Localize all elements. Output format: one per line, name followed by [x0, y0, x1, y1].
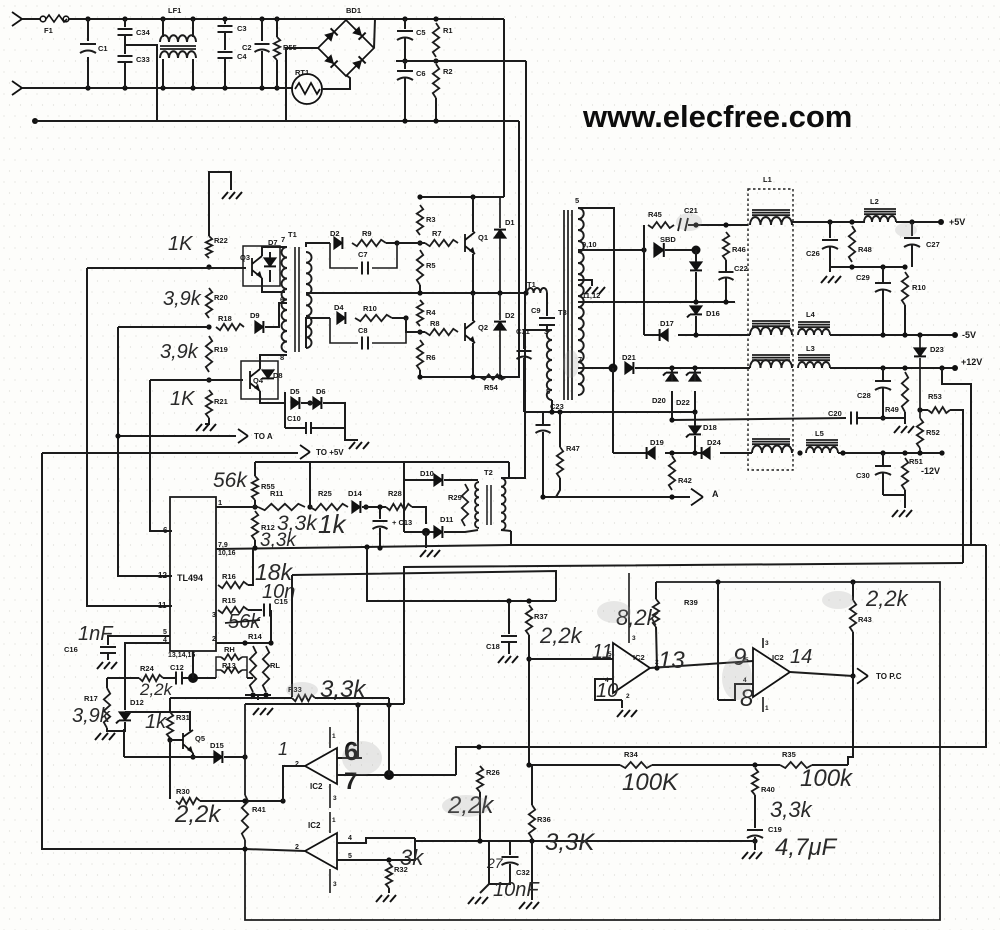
wire C23 stub	[542, 412, 544, 425]
transistor Q3 box	[243, 246, 280, 286]
svg-text:R18: R18	[218, 314, 232, 323]
resistor R1	[433, 23, 439, 57]
node D21 big	[609, 364, 618, 373]
wire plus12 row	[635, 367, 750, 369]
junction	[641, 247, 646, 252]
diode D23	[914, 348, 926, 356]
core LF1	[160, 46, 196, 49]
svg-text:R8: R8	[430, 319, 440, 328]
junction	[902, 450, 907, 455]
diode D14	[352, 501, 360, 513]
wire bottom AC rail	[22, 87, 292, 89]
wire sbd to node	[665, 249, 696, 251]
wire IC2d out	[790, 672, 853, 676]
wire C6 stub	[404, 78, 406, 121]
wire R36 bottom	[531, 838, 533, 900]
svg-text:1k: 1k	[145, 711, 167, 733]
wire C27 stub	[911, 222, 913, 236]
wire tap 9 10	[578, 249, 644, 251]
wire R2 stub	[435, 98, 437, 121]
svg-text:+5V: +5V	[949, 217, 965, 227]
wire R33 row left	[170, 697, 292, 699]
svg-text:C8: C8	[358, 326, 368, 335]
wire out b step	[389, 838, 415, 860]
wire IC2c gnd stub	[621, 700, 623, 708]
svg-text:13: 13	[658, 647, 685, 674]
junction	[669, 450, 674, 455]
wire R12 to rail	[254, 540, 256, 548]
core L4	[798, 322, 830, 327]
wire D12 R17 gnd	[107, 722, 125, 731]
wire C4 stub	[224, 58, 226, 88]
junction	[752, 838, 757, 843]
junction	[417, 329, 422, 334]
diode SBD	[654, 243, 664, 257]
wire C19 gnd	[754, 837, 756, 850]
wire DC minus rail	[35, 120, 519, 122]
svg-text:+ C13: + C13	[392, 518, 412, 527]
junction	[222, 16, 227, 21]
svg-text:L1: L1	[763, 175, 772, 184]
ground under RL	[253, 708, 273, 715]
wire Q2 emitter	[472, 343, 474, 377]
svg-text:R31: R31	[176, 713, 190, 722]
svg-text:D11: D11	[440, 515, 453, 524]
inductor L1 winding2	[750, 327, 792, 335]
wire r49 gnd stub	[904, 418, 906, 424]
wire C5 stub	[404, 38, 406, 61]
wire IC2c out	[650, 661, 753, 668]
junction	[476, 744, 481, 749]
svg-text:IC2: IC2	[772, 653, 784, 662]
svg-text:56k: 56k	[213, 469, 248, 492]
svg-text:R25: R25	[318, 489, 332, 498]
junction	[167, 737, 172, 742]
fuse F1	[40, 15, 69, 22]
svg-text:R48: R48	[858, 245, 872, 254]
svg-text:R42: R42	[678, 476, 692, 485]
svg-text:D21: D21	[622, 353, 636, 362]
svg-text:D22: D22	[676, 398, 690, 407]
wire C28 stub	[882, 368, 884, 381]
svg-text:R41: R41	[252, 805, 266, 814]
junction	[355, 702, 360, 707]
wire +5V rail a	[792, 221, 865, 223]
ground R49	[894, 426, 914, 433]
thermistor RT1	[292, 74, 322, 104]
junction	[252, 504, 257, 509]
svg-text:C29: C29	[856, 273, 870, 282]
core T3 b	[567, 210, 569, 400]
wire T3 pin5 top loop	[578, 208, 614, 368]
junction	[715, 579, 720, 584]
wire IC2c plus loop	[595, 679, 622, 700]
junction	[242, 846, 247, 851]
junction	[386, 702, 391, 707]
wire +12V rail	[830, 367, 954, 369]
svg-text:R3: R3	[426, 215, 436, 224]
wire D20 stubs	[671, 368, 673, 381]
junction	[377, 504, 382, 509]
svg-text:R46: R46	[732, 245, 746, 254]
wire RT1 to bridge	[322, 75, 350, 89]
junction	[470, 194, 475, 199]
junction	[190, 16, 195, 21]
resistor R40	[752, 768, 758, 795]
resistor R53	[928, 407, 950, 413]
wire box top inner	[245, 703, 404, 705]
svg-text:3,3k: 3,3k	[260, 530, 297, 551]
junction	[752, 762, 757, 767]
svg-text:F1: F1	[44, 26, 53, 35]
junction	[259, 16, 264, 21]
junction	[526, 656, 531, 661]
junction	[307, 400, 312, 405]
wire D22 stubs	[694, 368, 696, 381]
wire lower snubber right	[392, 317, 406, 319]
wire left net vertical pin6	[150, 380, 172, 531]
svg-text:2,2k: 2,2k	[539, 623, 583, 648]
capacitor C27	[904, 238, 920, 247]
wire IC2b input	[245, 849, 305, 851]
wire C30 stub	[882, 453, 884, 466]
wire R34 row	[529, 764, 620, 766]
svg-text:C16: C16	[64, 645, 78, 654]
wire D12 stub	[124, 678, 126, 710]
svg-text:10n: 10n	[262, 581, 295, 603]
wire R50 stub	[904, 305, 906, 335]
junction	[417, 290, 422, 295]
wire C23 down	[542, 432, 544, 497]
svg-text:IC2: IC2	[308, 821, 321, 830]
bridge diode 4	[352, 56, 365, 69]
wire R24 row	[107, 677, 139, 679]
ground below R21	[196, 424, 216, 431]
capacitor C5	[397, 31, 413, 40]
svg-text:3,9k: 3,9k	[163, 288, 202, 310]
junction	[880, 450, 885, 455]
svg-text:R20: R20	[214, 293, 228, 302]
wire doubler mid drop	[525, 61, 527, 293]
wire C26 gnd stub	[829, 267, 831, 272]
wire D2p down	[499, 330, 501, 377]
junction	[160, 16, 165, 21]
svg-text:C28: C28	[857, 391, 871, 400]
wire fb corner	[291, 575, 293, 697]
diode D17	[660, 329, 668, 341]
wire C22 link	[725, 260, 727, 272]
wire IC2d plus loop	[718, 684, 753, 700]
wire minus5 row	[678, 334, 750, 336]
svg-text:C19: C19	[768, 825, 782, 834]
junction	[363, 504, 368, 509]
svg-text:R14: R14	[248, 632, 263, 641]
junction	[402, 118, 407, 123]
wire Q4 base row	[150, 379, 243, 381]
resistor R29	[462, 484, 468, 526]
wire D23 stub2	[919, 358, 921, 368]
wire pin1 to R11	[216, 506, 258, 508]
svg-text:T3: T3	[558, 308, 567, 317]
wire bridge plus up to top rail	[374, 19, 375, 48]
wire R8 row	[406, 318, 425, 332]
strike through 56k	[225, 620, 260, 623]
svg-text:C3: C3	[237, 24, 247, 33]
wire c20 to r49	[856, 417, 905, 419]
junction	[880, 365, 885, 370]
wire fb R35 path	[848, 676, 853, 765]
svg-text:2: 2	[212, 636, 216, 643]
op-amp IC2c	[613, 643, 650, 693]
capacitor C28	[875, 381, 891, 390]
zener D20	[666, 373, 678, 381]
svg-text:D1: D1	[505, 218, 515, 227]
junction	[917, 450, 922, 455]
junction	[880, 415, 885, 420]
svg-text:11,12: 11,12	[582, 291, 600, 300]
wire pin5 stub	[108, 636, 170, 645]
svg-text:D23: D23	[930, 345, 944, 354]
diode D15	[214, 751, 222, 763]
wire R33 to corner	[315, 697, 389, 699]
junction	[242, 754, 247, 759]
wire c20 row	[672, 418, 846, 420]
svg-text:12: 12	[158, 571, 167, 580]
core L1 w4	[752, 439, 790, 444]
junction	[115, 433, 120, 438]
resistor R34	[620, 762, 652, 768]
junction	[902, 264, 907, 269]
svg-text:10,16: 10,16	[218, 550, 236, 557]
wire C10 right	[311, 427, 345, 429]
wire D21 node down	[612, 368, 614, 453]
resistor R13	[221, 667, 242, 673]
wire R6 stub	[419, 370, 421, 377]
resistor R42	[669, 456, 675, 490]
wire minus12 row	[613, 452, 655, 454]
big box lower	[245, 582, 940, 920]
resistor R21	[206, 390, 212, 418]
junction	[669, 494, 674, 499]
svg-text:D2: D2	[505, 311, 515, 320]
wire out to comparators	[456, 545, 986, 775]
wire C1 stub2	[87, 57, 89, 88]
wire C33 mid tap to ground rail	[125, 45, 157, 121]
capacitor C6	[397, 71, 413, 80]
ground above driver	[222, 192, 242, 199]
wire C13 stub	[379, 507, 381, 519]
node AC input line 1	[12, 12, 22, 26]
junction	[669, 417, 674, 422]
wire to A	[118, 435, 236, 437]
diode D1	[494, 230, 506, 238]
wire C32 gnd stub	[480, 884, 489, 893]
wire A row	[655, 496, 690, 498]
svg-text:R40: R40	[761, 785, 775, 794]
ground C19	[742, 852, 762, 859]
wire sense to error amp	[404, 600, 556, 602]
capacitor C1	[80, 44, 96, 53]
resistor R30	[176, 798, 200, 804]
wire C3 stub	[224, 19, 226, 24]
wire R32 gnd	[388, 888, 390, 893]
svg-text:L3: L3	[806, 344, 815, 353]
wire C16 gnd	[107, 653, 109, 660]
wire pin6 vert	[357, 705, 359, 758]
transistor Q5	[183, 730, 193, 753]
capacitor C30	[875, 466, 891, 475]
svg-text:R24: R24	[140, 664, 155, 673]
svg-text:BD1: BD1	[346, 6, 361, 15]
ground IC2c	[617, 710, 637, 717]
svg-text:C20: C20	[828, 409, 842, 418]
core T3 a	[563, 210, 565, 400]
wire Q4 collector to T1 bottom	[260, 355, 287, 369]
wire C10 left	[285, 427, 306, 429]
svg-text:C26: C26	[806, 249, 820, 258]
wire D10 right	[444, 479, 478, 481]
junction	[85, 16, 90, 21]
inductor L1 winding4	[752, 446, 792, 454]
supply stroke IC2a top	[329, 727, 331, 748]
svg-text:R49: R49	[885, 405, 899, 414]
junction	[190, 754, 195, 759]
svg-text:C34: C34	[136, 28, 151, 37]
svg-text:SBD: SBD	[660, 235, 676, 244]
junction	[917, 407, 922, 412]
wire C22 stub	[725, 278, 727, 302]
wire C10 to ground	[345, 428, 358, 440]
wire R36 top	[531, 765, 533, 805]
supply stroke IC2b top	[329, 812, 331, 833]
svg-text:TO +5V: TO +5V	[316, 448, 344, 457]
svg-text:C6: C6	[416, 69, 426, 78]
wire RL gnd stub	[257, 695, 259, 700]
wire C12 to node	[181, 677, 216, 679]
junction	[394, 240, 399, 245]
inductor T1 primary series	[527, 288, 547, 293]
wire R39 down	[656, 627, 657, 668]
ground under C16	[97, 662, 117, 669]
ground R51	[892, 510, 912, 517]
wire C23 row	[524, 411, 695, 413]
wire R13 node to R14	[247, 677, 253, 679]
inductor L5	[806, 447, 838, 453]
junction	[902, 332, 907, 337]
wire D15 row	[124, 756, 214, 758]
wire pin2 row	[216, 642, 271, 644]
wire lower snubber row	[306, 318, 330, 348]
svg-text:C32: C32	[516, 868, 530, 877]
wire LF1 stub	[192, 59, 194, 88]
svg-text:T1: T1	[288, 230, 297, 239]
diode D2	[334, 237, 342, 249]
wire Q1 collector row	[420, 196, 504, 198]
resistor R35	[780, 762, 812, 768]
wire IC2a input	[283, 766, 305, 801]
junction	[242, 640, 247, 645]
junction	[850, 579, 855, 584]
capacitor C20	[851, 412, 857, 425]
wire Q4 emitter down	[260, 391, 285, 403]
resistor R19	[206, 336, 212, 372]
wire C18 gnd	[508, 642, 510, 654]
core L2	[864, 209, 896, 214]
junction	[880, 264, 885, 269]
wire R26 bottom	[479, 792, 481, 841]
bridge diode 1	[324, 28, 337, 41]
capacitor C33	[118, 56, 133, 62]
wire center tap to ground	[578, 280, 592, 286]
wire R11 top drop	[309, 462, 311, 507]
wire R40 down	[754, 795, 756, 828]
ground at C10	[349, 442, 369, 449]
wire C15 down	[270, 610, 272, 643]
terminal +12V	[952, 365, 958, 371]
core T3 c	[571, 210, 573, 400]
svg-text:5: 5	[546, 387, 550, 396]
junction	[939, 365, 944, 370]
wire IC2a out	[337, 774, 456, 776]
svg-text:R37: R37	[534, 612, 548, 621]
wire top rail to C5 R1	[375, 18, 504, 20]
ground under D11 node	[420, 550, 440, 557]
wire R53 sense down	[404, 563, 963, 704]
wire bridge gnd stub	[425, 532, 427, 548]
svg-text:D9: D9	[250, 311, 260, 320]
supply stroke IC2a bottom	[329, 784, 331, 808]
wire R14 RL bottom	[245, 694, 271, 696]
resistor R43	[850, 600, 856, 632]
svg-text:3,9k: 3,9k	[72, 705, 111, 727]
wire C26 stub	[829, 222, 831, 238]
capacitor C15	[264, 604, 270, 617]
wire D14 to R28	[362, 506, 386, 508]
wire C31 branch	[524, 330, 547, 349]
svg-text:C2: C2	[242, 43, 252, 52]
wire R33 corner	[388, 698, 390, 705]
core L3	[798, 355, 830, 360]
svg-text:3: 3	[632, 635, 636, 642]
capacitor C26	[822, 240, 838, 249]
svg-text:R16: R16	[222, 572, 236, 581]
wire R53 row	[920, 409, 928, 411]
svg-text:R43: R43	[858, 615, 872, 624]
resistor R20	[206, 288, 212, 318]
wire long row y841	[415, 840, 755, 842]
wire D18 stubs	[694, 412, 696, 426]
wire Q3 base row	[87, 267, 246, 269]
resistor R48	[849, 226, 855, 262]
junction	[692, 365, 697, 370]
wire D7 stub	[269, 252, 271, 258]
svg-text:D7: D7	[268, 238, 278, 247]
svg-text:R53: R53	[928, 392, 942, 401]
wire T2 top stub	[501, 462, 509, 478]
svg-text:R55: R55	[261, 482, 275, 491]
resistor RH	[221, 654, 242, 660]
arrow TO P.C	[857, 668, 868, 683]
wire R31 to Q5 base	[170, 739, 183, 741]
wire C2 stub	[261, 19, 263, 41]
wire R5 stub	[419, 285, 421, 293]
wire IC2b pin4	[337, 838, 415, 843]
wire R21 to ground	[205, 418, 209, 424]
resistor R32	[386, 863, 392, 888]
core T1 a	[294, 247, 296, 352]
diode D6	[313, 397, 321, 409]
wire R55 stub	[276, 60, 278, 88]
